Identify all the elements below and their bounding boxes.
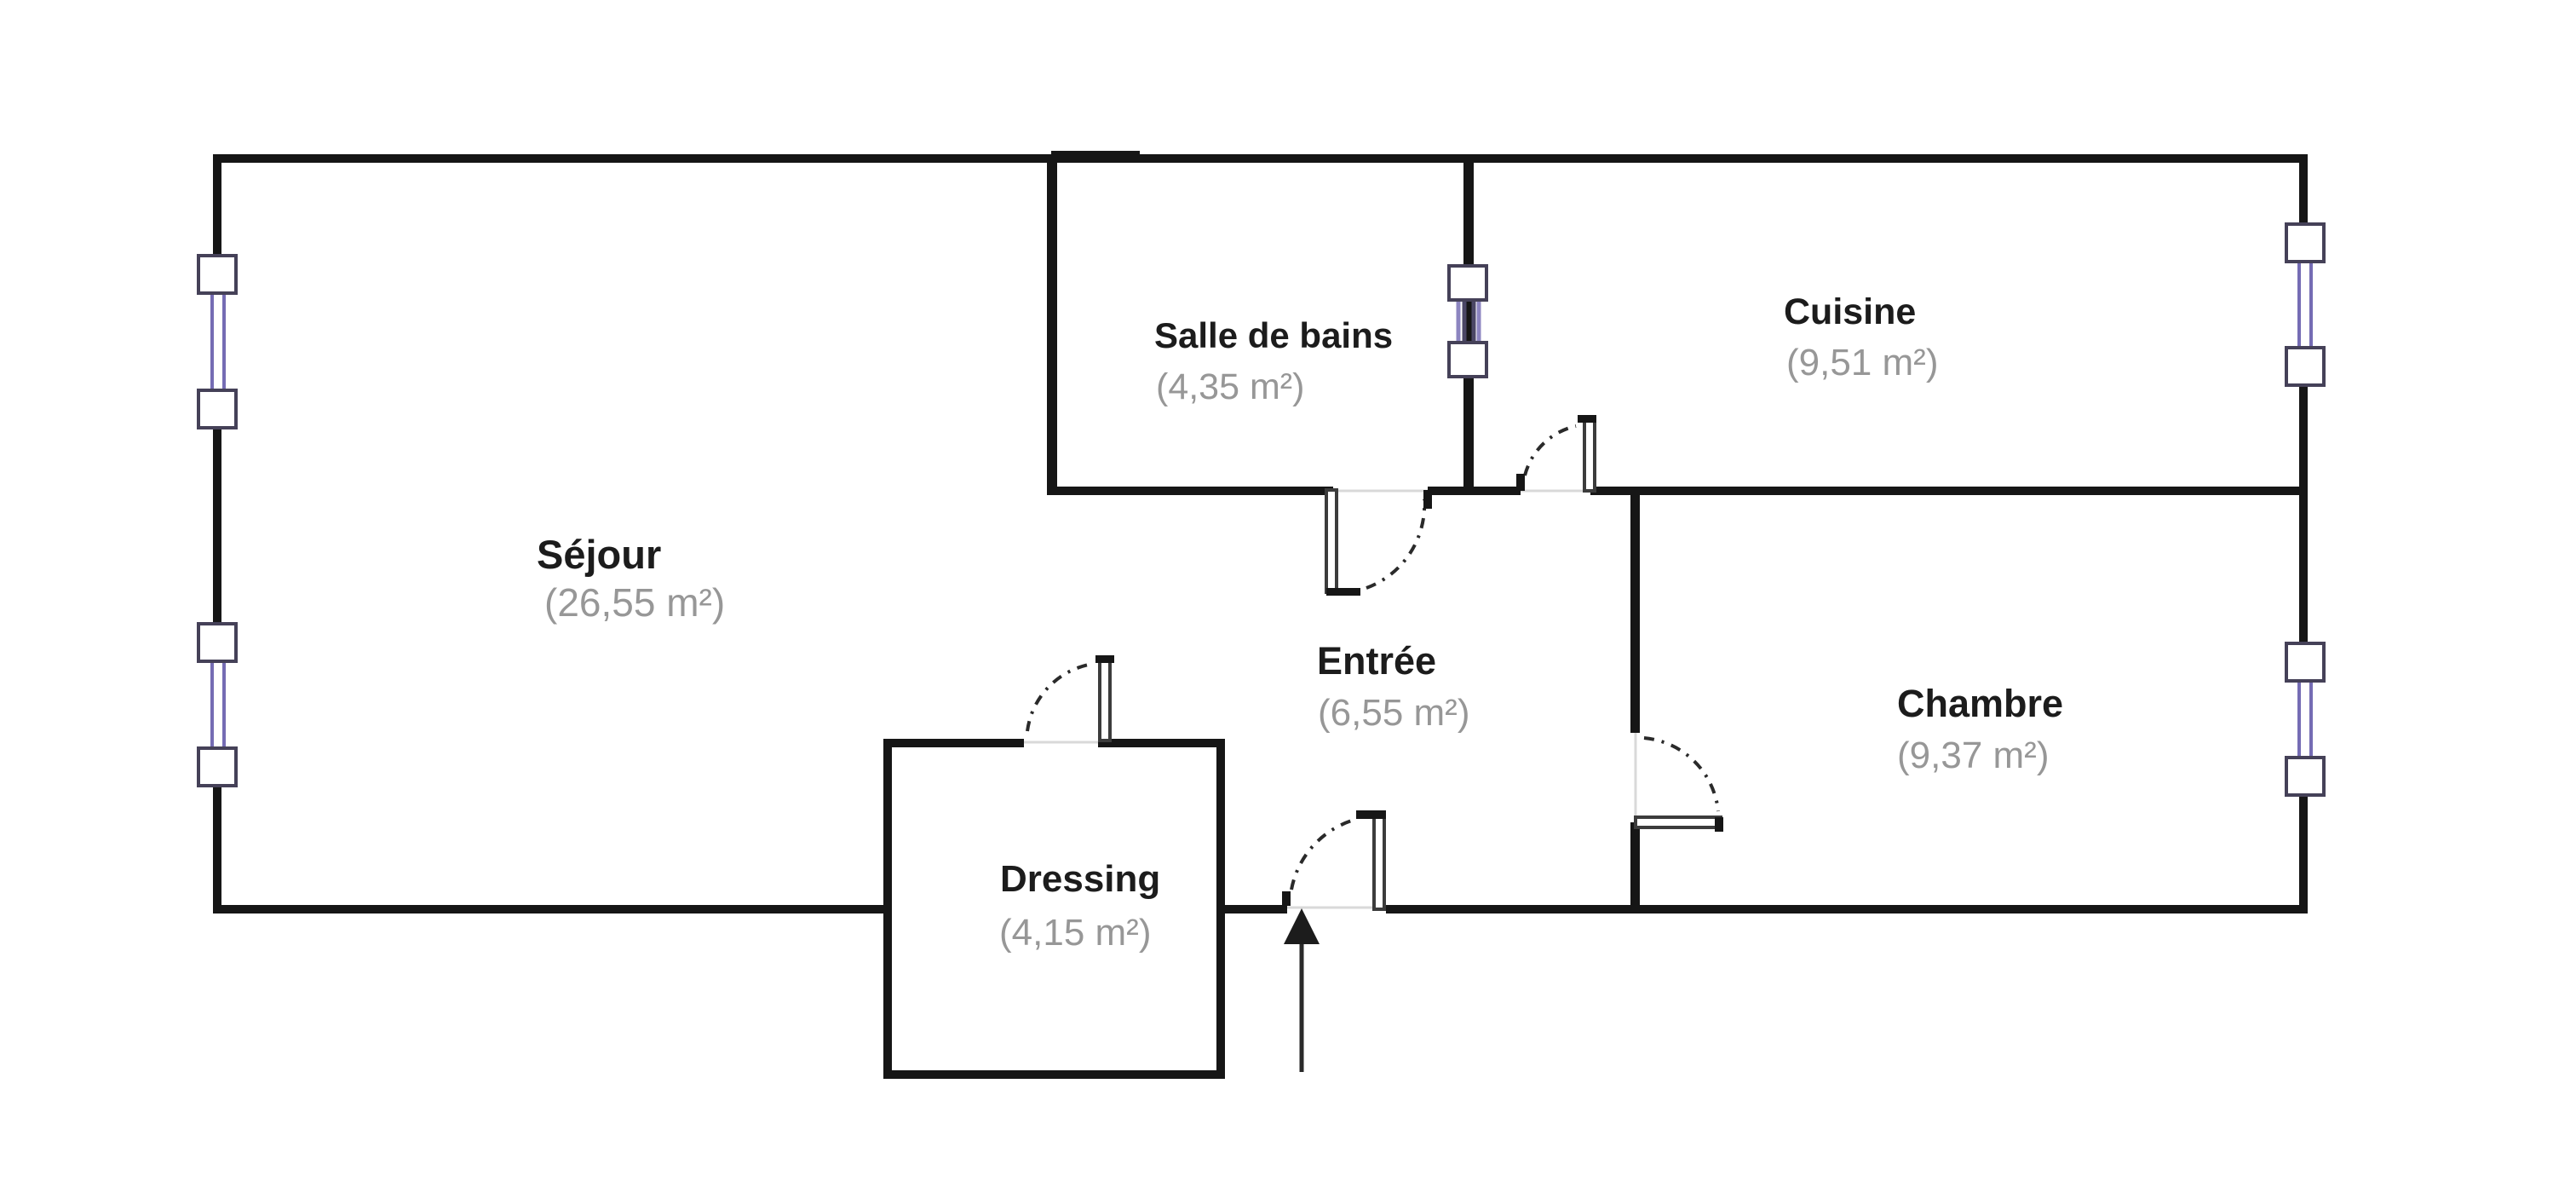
door D5 cap (1356, 810, 1386, 819)
door D4 leaf (1100, 658, 1110, 741)
door D3 Chambre (threshold) (1635, 733, 1637, 822)
wall: Entree / Chambre divider upper (1630, 490, 1640, 733)
wall: Entree / Chambre divider lower (1630, 822, 1640, 913)
svg-text:Chambre: Chambre (1897, 682, 2063, 725)
door D4 cap (1095, 655, 1114, 663)
wall: bottom left segment (under Sejour) (213, 905, 892, 913)
wall: Salle de bains / Cuisine divider (1463, 158, 1474, 495)
svg-text:Cuisine: Cuisine (1784, 291, 1916, 332)
door D4 arc (1027, 665, 1089, 731)
wall: mid horizontal between doors (1428, 487, 1521, 495)
door D4 Dressing (threshold) (1024, 741, 1098, 744)
wall: mid horizontal right (Cuisine bottom / Chambre top) (1590, 487, 2308, 495)
door D5 left jamb (1282, 891, 1291, 906)
window W5 on right wall (Chambre) (2286, 643, 2324, 795)
wall: outer top (213, 154, 2308, 163)
door D2 arc (1525, 426, 1576, 475)
svg-text:Entrée: Entrée (1317, 639, 1436, 683)
entry arrow shaft (1300, 944, 1304, 1072)
door D5 entry (threshold) (1287, 907, 1380, 909)
door D3 leaf (1636, 817, 1721, 827)
wall: dressing bottom (883, 1070, 1225, 1079)
window W2 on left wall (lower) (198, 624, 236, 786)
door D1 leaf (1326, 490, 1337, 592)
wall: bottom segment between dressing and entry opening (1216, 905, 1287, 913)
svg-text:(9,51 m²): (9,51 m²) (1786, 342, 1938, 383)
door D5 leaf (1374, 814, 1384, 909)
window W1 on left wall (upper) (198, 256, 236, 428)
wall: mid horizontal under Salle de bains (1047, 487, 1333, 495)
wall: outer left (213, 154, 221, 913)
door D2 Cuisine (threshold) (1521, 490, 1590, 493)
entry arrow head (1284, 908, 1320, 944)
wall: dressing top left segment (883, 739, 1024, 747)
svg-text:(6,55 m²): (6,55 m²) (1318, 692, 1469, 734)
door D3 cap (1715, 817, 1723, 832)
window W4 on right wall (Cuisine) (2286, 224, 2324, 385)
door D5 arc (1291, 820, 1354, 890)
wall: bottom right segment (under Chambre) (1386, 905, 2308, 913)
door D2 leaf (1584, 418, 1595, 491)
wall: dressing left (883, 739, 892, 1079)
svg-text:(4,15 m²): (4,15 m²) (999, 912, 1151, 954)
svg-text:Séjour: Séjour (537, 532, 661, 577)
svg-text:(4,35 m²): (4,35 m²) (1156, 366, 1304, 407)
wall: dressing top right segment (1098, 739, 1225, 747)
svg-text:Dressing: Dressing (1000, 858, 1160, 900)
window W3 on Salle de bains / Cuisine divider (1449, 266, 1486, 377)
door D1 Salle de bains (threshold) (1333, 490, 1428, 493)
door D1 right jamb (1423, 490, 1432, 509)
wall: dressing right (1216, 739, 1225, 1079)
wall: top overlap thicker segment above Salle de bains (1051, 151, 1140, 163)
door D2 cap (1578, 415, 1596, 423)
svg-text:Salle de bains: Salle de bains (1154, 315, 1393, 355)
door D1 arc (1366, 499, 1424, 588)
wall: outer right (2299, 154, 2308, 913)
svg-text:(9,37 m²): (9,37 m²) (1897, 735, 2049, 776)
door D1 cap (1326, 588, 1360, 596)
door D2 left jamb (1516, 474, 1525, 491)
door D3 arc (1644, 738, 1718, 811)
wall: Salle de bains left (1047, 158, 1057, 495)
svg-text:(26,55 m²): (26,55 m²) (544, 580, 725, 625)
